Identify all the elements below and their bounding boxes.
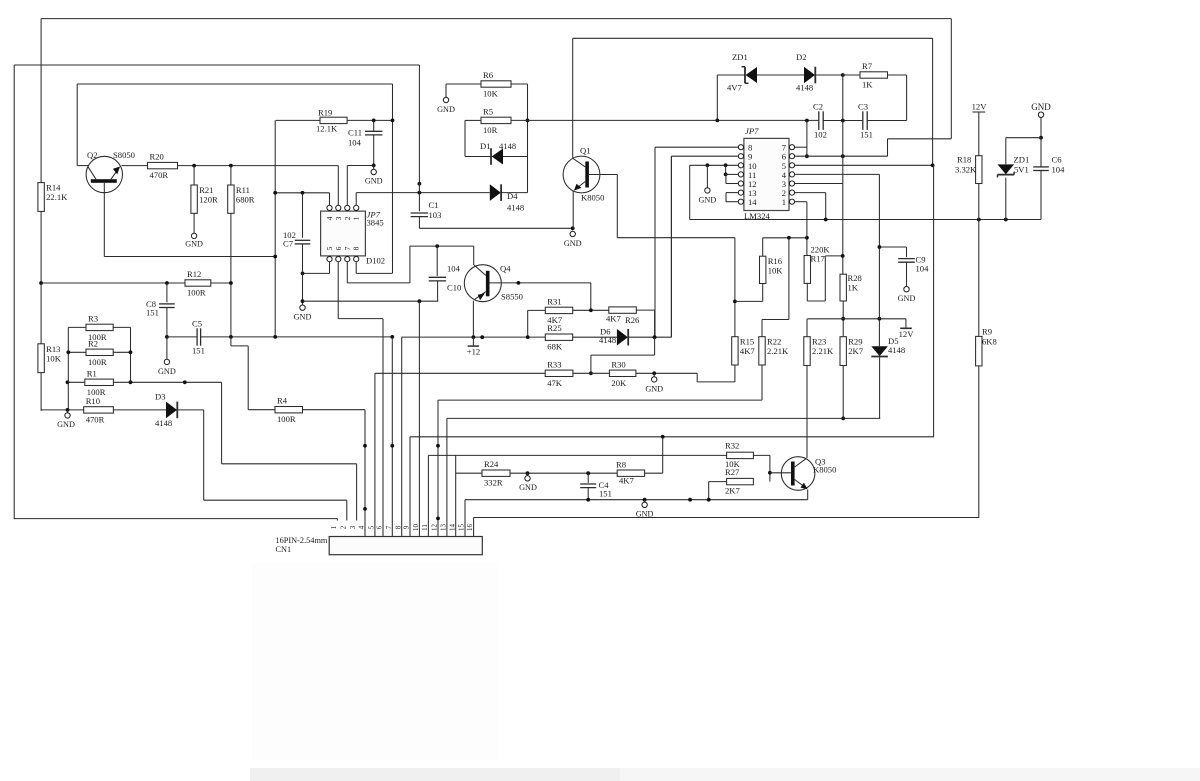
junction	[571, 226, 575, 230]
junction	[391, 119, 395, 123]
wire	[464, 500, 466, 537]
resistor R7	[860, 72, 888, 78]
wire	[193, 166, 195, 185]
wire	[67, 410, 69, 413]
wire	[807, 300, 825, 302]
wire pin3 up	[337, 166, 339, 206]
wire	[629, 336, 672, 338]
wire	[122, 165, 148, 167]
wire	[347, 282, 410, 284]
resistor R28	[840, 274, 846, 301]
wire	[689, 165, 691, 219]
junction	[841, 119, 845, 123]
wire L4 to CN1 pin11	[427, 455, 429, 536]
wire	[373, 135, 375, 165]
svg-text:GND: GND	[437, 105, 455, 114]
svg-text:151: 151	[860, 130, 873, 140]
junction	[66, 350, 70, 354]
capacitor C4	[580, 483, 596, 485]
resistor R11	[228, 185, 234, 213]
svg-text:2.21K: 2.21K	[812, 346, 834, 356]
svg-text:D2: D2	[796, 52, 807, 62]
ground	[191, 233, 196, 238]
wire pin5	[795, 164, 933, 166]
svg-text:4: 4	[358, 525, 366, 529]
svg-text:10K: 10K	[46, 353, 62, 363]
junction	[436, 517, 440, 521]
wire	[103, 183, 105, 257]
capacitor C2	[818, 111, 820, 130]
svg-text:5V1: 5V1	[1014, 165, 1029, 175]
wire	[978, 184, 980, 220]
junction	[183, 380, 187, 384]
wire	[76, 84, 78, 166]
resistor R2	[86, 349, 113, 355]
wire	[77, 83, 392, 85]
wire C7 gnd net to CN1 pin10	[418, 301, 420, 536]
junction	[129, 350, 133, 354]
wire	[900, 327, 912, 329]
svg-text:104: 104	[447, 264, 461, 274]
wire R19 left net down	[274, 120, 276, 337]
junction	[418, 299, 422, 303]
junction	[229, 164, 233, 168]
svg-text:GND: GND	[645, 385, 663, 394]
capacitor C9	[898, 258, 915, 260]
junction	[977, 218, 981, 222]
svg-text:R22: R22	[767, 337, 781, 347]
wire	[654, 310, 656, 337]
wire	[690, 219, 1041, 221]
wire	[762, 238, 764, 256]
svg-text:4K7: 4K7	[619, 476, 635, 486]
wire	[41, 18, 951, 20]
wire	[753, 454, 770, 456]
svg-text:CN1: CN1	[276, 545, 292, 554]
junction	[724, 173, 728, 177]
wire	[906, 247, 908, 257]
wire	[823, 120, 862, 122]
wire R12 line	[41, 282, 185, 284]
svg-text:R19: R19	[318, 108, 332, 118]
wire	[670, 156, 672, 337]
wire	[636, 372, 697, 374]
wire	[230, 337, 232, 346]
wire	[573, 372, 610, 374]
wire	[653, 373, 655, 376]
junction	[643, 498, 647, 502]
wire	[230, 166, 232, 185]
wire	[338, 318, 383, 320]
ground	[570, 231, 575, 236]
wire	[905, 319, 907, 329]
ground	[300, 305, 305, 310]
svg-text:GND: GND	[1031, 102, 1051, 112]
svg-text:GND: GND	[898, 294, 916, 303]
wire	[709, 481, 727, 483]
svg-text:104: 104	[1052, 165, 1066, 175]
wire	[815, 74, 843, 76]
junction	[931, 163, 935, 167]
svg-text:1: 1	[782, 197, 786, 207]
wire	[617, 237, 735, 239]
svg-text:100R: 100R	[88, 357, 107, 367]
wire Q1 base down / R15 top	[734, 238, 736, 337]
junction	[661, 435, 665, 439]
junction	[435, 244, 439, 248]
svg-text:R12: R12	[187, 269, 201, 279]
junction	[165, 335, 169, 339]
junction	[273, 255, 277, 259]
junction	[652, 371, 656, 375]
wire	[708, 482, 710, 500]
junction	[301, 299, 305, 303]
wire	[645, 472, 663, 474]
wire	[573, 309, 609, 311]
wire	[573, 336, 617, 338]
wire C1 to Q1 emitter GND	[419, 227, 572, 229]
wire	[211, 282, 231, 284]
transistor Q3 K8050	[781, 457, 815, 491]
wire	[356, 272, 392, 274]
junction	[787, 236, 791, 240]
wire	[276, 119, 320, 121]
wire	[472, 337, 474, 346]
wire C5 net to CN1 pin7	[391, 337, 393, 537]
svg-text:104: 104	[916, 264, 930, 274]
svg-text:C6: C6	[1052, 155, 1063, 165]
wire	[418, 217, 420, 229]
svg-text:22.1K: 22.1K	[46, 192, 68, 202]
wire pin8	[655, 146, 738, 148]
wire	[644, 500, 646, 502]
wire Q1 base	[589, 174, 617, 176]
svg-text:3845: 3845	[367, 218, 384, 228]
svg-text:12: 12	[431, 524, 439, 532]
svg-text:102: 102	[814, 130, 827, 140]
wire pin2	[795, 192, 826, 194]
svg-text:ZD1: ZD1	[1014, 155, 1030, 165]
wire pin4	[795, 173, 880, 175]
wire	[932, 38, 934, 165]
svg-text:C3: C3	[858, 102, 868, 112]
svg-text:R16: R16	[768, 256, 783, 266]
junction	[526, 335, 530, 339]
resistor R30	[609, 370, 636, 376]
junction	[39, 281, 43, 285]
svg-text:14: 14	[448, 524, 456, 532]
wire	[166, 337, 168, 359]
wire	[302, 273, 304, 305]
junction	[841, 417, 845, 421]
resistor R6	[481, 81, 511, 87]
resistor R17	[804, 256, 810, 284]
junction	[363, 444, 367, 448]
wire pin6 down	[337, 262, 339, 319]
wire pin6	[795, 155, 888, 157]
svg-text:D102: D102	[366, 256, 385, 266]
ground	[164, 359, 169, 364]
junction	[472, 335, 476, 339]
capacitor C8	[159, 303, 175, 305]
wire	[14, 518, 337, 520]
wire	[654, 337, 656, 355]
wire	[843, 74, 860, 76]
svg-text:2: 2	[343, 216, 352, 220]
wire	[867, 120, 906, 122]
svg-text:20K: 20K	[611, 378, 627, 388]
resistor R9	[976, 336, 982, 366]
wire	[445, 84, 447, 97]
wire	[825, 193, 827, 220]
svg-text:R23: R23	[812, 337, 826, 347]
wire	[231, 345, 248, 347]
resistor R21	[191, 185, 197, 213]
wire	[1040, 117, 1042, 137]
junction	[301, 191, 305, 195]
wire pin9	[671, 155, 738, 157]
capacitor C10	[429, 276, 446, 278]
junction	[1039, 136, 1043, 140]
svg-text:2: 2	[339, 525, 347, 529]
ground	[904, 287, 909, 292]
wire emitter/R27/C4 gnd line	[465, 499, 808, 501]
wire	[275, 192, 329, 194]
wire	[906, 75, 908, 120]
junction	[372, 119, 376, 123]
wire	[806, 319, 808, 337]
ground R24	[525, 476, 530, 481]
svg-text:R20: R20	[150, 152, 164, 162]
resistor R23	[804, 337, 810, 366]
transistor Q4 S8550	[464, 265, 501, 302]
wire	[511, 83, 528, 85]
wire C9 link	[879, 246, 906, 248]
wire	[130, 327, 132, 382]
svg-text:7: 7	[343, 246, 352, 250]
svg-text:4148: 4148	[507, 203, 524, 213]
wire wire L3	[410, 436, 934, 438]
wire	[725, 193, 727, 202]
svg-text:R26: R26	[625, 315, 640, 325]
wire	[465, 156, 491, 158]
svg-text:1K: 1K	[848, 283, 859, 293]
svg-text:R24: R24	[484, 459, 499, 469]
wire	[113, 351, 130, 353]
resistor R4	[275, 407, 303, 413]
wire wire L1	[438, 399, 762, 401]
wire	[590, 283, 592, 310]
svg-text:C2: C2	[813, 102, 823, 112]
svg-text:11: 11	[421, 524, 429, 531]
svg-text:R30: R30	[611, 359, 625, 369]
junction	[372, 164, 376, 168]
junction	[724, 163, 728, 167]
junction	[805, 154, 809, 158]
svg-text:8: 8	[394, 525, 402, 529]
wire Q3 base	[770, 472, 791, 474]
wire	[978, 220, 980, 337]
wire	[373, 120, 375, 131]
svg-text:470R: 470R	[150, 170, 169, 180]
wire	[716, 75, 718, 120]
wire pin1	[795, 201, 807, 203]
wire	[375, 372, 545, 374]
svg-text:R10: R10	[86, 396, 100, 406]
wire pin8 down	[355, 262, 357, 274]
svg-text:R8: R8	[616, 460, 626, 470]
wire	[510, 472, 617, 474]
svg-text:R25: R25	[547, 323, 561, 333]
wire	[204, 499, 347, 501]
junction	[589, 308, 593, 312]
svg-text:C1: C1	[429, 200, 439, 210]
svg-text:2.21K: 2.21K	[767, 346, 789, 356]
svg-text:13: 13	[440, 524, 448, 532]
svg-text:470R: 470R	[86, 414, 105, 424]
resistor R33	[545, 370, 573, 376]
svg-text:47K: 47K	[547, 378, 563, 388]
capacitor C11	[365, 130, 382, 132]
svg-text:R32: R32	[725, 441, 739, 451]
svg-text:C10: C10	[447, 283, 461, 293]
resistor R15	[732, 337, 738, 365]
svg-text:GND: GND	[185, 240, 203, 249]
junction	[129, 380, 133, 384]
svg-text:15: 15	[458, 524, 466, 532]
svg-text:1: 1	[330, 525, 338, 529]
svg-text:16PIN-2.54mm: 16PIN-2.54mm	[276, 536, 328, 545]
wire	[590, 355, 592, 373]
svg-text:1K: 1K	[862, 80, 873, 90]
wire pin4 up	[329, 193, 331, 205]
wire	[842, 156, 844, 274]
junction	[878, 317, 882, 321]
svg-text:151: 151	[192, 346, 205, 356]
junction	[805, 119, 809, 123]
wire	[392, 84, 394, 273]
wire	[418, 65, 420, 211]
junction	[229, 281, 233, 285]
wire R22 bottom to L1	[761, 365, 763, 400]
transistor Q2 S8050	[86, 156, 122, 192]
junction	[707, 498, 711, 502]
wire	[40, 373, 42, 411]
resistor R1	[85, 379, 114, 385]
wire R23 top line	[807, 318, 906, 320]
svg-text:120R: 120R	[199, 195, 218, 205]
resistor R13	[38, 344, 44, 373]
svg-text:GND: GND	[699, 196, 717, 205]
junction	[165, 281, 169, 285]
resistor R25	[545, 334, 572, 340]
svg-text:8: 8	[352, 246, 361, 250]
junction	[418, 182, 422, 186]
wire	[437, 281, 439, 301]
resistor R12	[185, 280, 211, 286]
wire wire L4	[428, 454, 726, 456]
junction	[1004, 218, 1008, 222]
wire R20 to UP7 pin3	[178, 165, 339, 167]
wire Q4 collector up	[473, 246, 475, 265]
svg-text:R2: R2	[88, 338, 98, 348]
junction	[526, 119, 530, 123]
wire Q4 base	[490, 282, 591, 284]
svg-text:R28: R28	[848, 273, 862, 283]
svg-text:R31: R31	[547, 296, 561, 306]
wire R4 net to CN1 pin4	[364, 410, 366, 537]
wire	[14, 64, 419, 66]
junction	[390, 335, 394, 339]
junction	[841, 154, 845, 158]
svg-text:14: 14	[748, 197, 757, 207]
svg-text:GND: GND	[365, 177, 383, 186]
svg-text:S8550: S8550	[501, 292, 523, 302]
svg-text:4K7: 4K7	[606, 314, 622, 324]
resistor R10	[84, 407, 114, 413]
transistor Q1 K8050	[563, 156, 600, 193]
wire	[735, 300, 763, 302]
svg-text:R4: R4	[277, 396, 288, 406]
wire	[887, 139, 889, 156]
wire pin7 net top	[410, 245, 474, 247]
wire	[303, 272, 330, 274]
wire	[806, 121, 808, 157]
wire	[806, 283, 808, 301]
svg-text:D1: D1	[480, 141, 491, 151]
junction	[66, 408, 70, 412]
wire	[503, 156, 528, 158]
wire	[906, 262, 908, 286]
svg-text:5: 5	[325, 246, 334, 250]
svg-text:12V: 12V	[972, 102, 988, 112]
svg-text:GND: GND	[294, 313, 312, 322]
svg-text:GND: GND	[57, 420, 75, 429]
resistor R24	[482, 470, 510, 476]
svg-text:D3: D3	[155, 392, 166, 402]
svg-text:K8050: K8050	[581, 193, 604, 203]
wire pin3 from R1 staircase	[356, 464, 358, 521]
wire	[222, 463, 357, 465]
wire	[166, 283, 168, 302]
wire L2 to CN1 pin13	[446, 418, 448, 536]
ground	[371, 169, 376, 174]
junction	[586, 498, 590, 502]
svg-text:6K8: 6K8	[982, 337, 997, 347]
wire	[842, 301, 844, 337]
junction	[301, 272, 305, 276]
junction	[363, 507, 367, 511]
junction	[66, 380, 70, 384]
wire R23 to Q3 collector	[806, 366, 808, 459]
resistor R3	[86, 324, 113, 330]
wire	[446, 83, 481, 85]
wire R6/R5/D1/D4 junction vertical	[527, 84, 529, 193]
junction	[733, 300, 737, 304]
svg-text:16: 16	[466, 524, 474, 532]
resistor R22	[759, 337, 765, 365]
wire	[842, 121, 844, 157]
wire pin2 up	[346, 165, 348, 205]
wire	[40, 19, 42, 183]
svg-text:12V: 12V	[899, 329, 915, 339]
wire	[248, 409, 275, 411]
wire Q1 collector up	[572, 38, 574, 158]
resistor R31	[545, 307, 572, 313]
wire	[697, 381, 735, 383]
svg-text:4: 4	[325, 216, 334, 220]
junction	[878, 245, 882, 249]
